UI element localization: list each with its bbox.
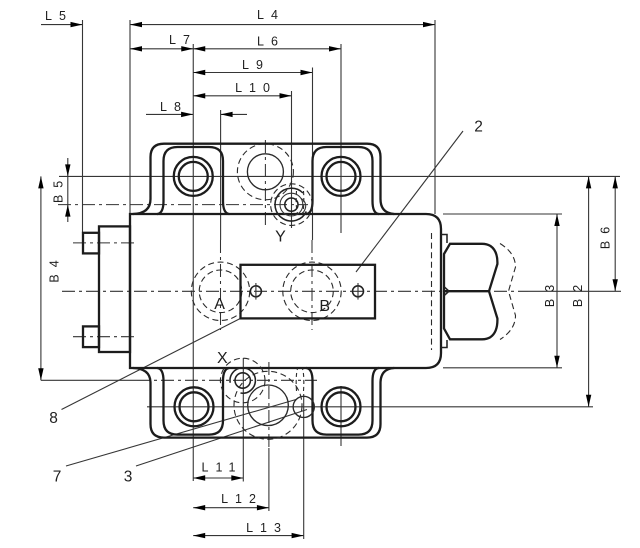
top-left bolt boss pocket xyxy=(158,147,230,214)
centerline port B vertical xyxy=(311,240,313,330)
nameplate xyxy=(241,265,376,319)
port X threaded hole xyxy=(220,358,265,403)
svg-text:B6: B6 xyxy=(599,220,613,249)
port B hidden circles xyxy=(283,262,341,320)
dimension L11 xyxy=(193,461,243,481)
centerline left tab upper xyxy=(73,242,137,244)
extension line x=341 (right bolt hole column) xyxy=(340,44,342,233)
bolt hole top-left outer xyxy=(174,157,213,196)
centerline top bore vertical xyxy=(264,140,266,229)
bolt hole top-right inner xyxy=(327,162,356,191)
svg-text:A: A xyxy=(214,296,225,313)
extension line x=243.3 (port X column) xyxy=(242,358,244,482)
centerline port X row xyxy=(137,379,317,381)
extension line y=291.3 right (B6 bottom) xyxy=(528,290,621,292)
svg-text:B2: B2 xyxy=(571,278,585,307)
svg-text:L10: L10 xyxy=(235,81,277,95)
bottom-left bolt boss pocket xyxy=(158,368,230,435)
dimension B6 xyxy=(599,176,618,291)
bottom bore hidden circle xyxy=(234,371,302,439)
svg-text:B4: B4 xyxy=(48,253,62,282)
top flange silhouette xyxy=(133,144,394,214)
svg-text:8: 8 xyxy=(49,410,58,427)
bolt hole top-left inner xyxy=(179,162,208,191)
callout 7 xyxy=(53,400,296,486)
valve body outline xyxy=(130,214,441,368)
dimension B2 xyxy=(571,176,591,406)
dimension B3 xyxy=(543,214,560,368)
svg-text:L13: L13 xyxy=(246,521,288,535)
port Y threaded hole xyxy=(271,184,313,226)
dimension L13 xyxy=(193,521,303,538)
dimension L6 xyxy=(193,35,341,52)
callout 8 xyxy=(49,318,240,427)
hex plug hidden end arc xyxy=(500,244,516,340)
drain hole bottom xyxy=(293,396,314,417)
extension line y=214 right (B3 top) xyxy=(443,213,562,215)
svg-text:2: 2 xyxy=(474,119,483,136)
extension line y=367.8 right (B3 bottom) xyxy=(443,367,562,369)
dimension L7 xyxy=(130,33,197,51)
bolt hole top-right outer xyxy=(322,157,361,196)
extension line y=176.4 (bolt hole row) xyxy=(59,175,620,177)
nameplate screw left xyxy=(250,283,261,300)
centerline left tab lower xyxy=(73,336,137,338)
bottom-right bolt boss pocket xyxy=(307,368,379,435)
dimension L10 xyxy=(193,81,291,99)
port A hidden circles xyxy=(191,262,249,320)
nameplate screw right xyxy=(353,283,364,300)
left tab upper xyxy=(83,233,99,254)
svg-text:L12: L12 xyxy=(221,492,263,506)
svg-text:L11: L11 xyxy=(202,461,243,475)
svg-text:B3: B3 xyxy=(543,278,557,307)
callout 2 xyxy=(356,119,483,273)
centerline port Y row xyxy=(58,204,308,206)
dimension L12 xyxy=(193,492,269,510)
hidden web edge top pair xyxy=(296,191,297,214)
dimension L4 xyxy=(130,8,435,27)
svg-text:B5: B5 xyxy=(52,174,66,203)
hidden bore behind plug xyxy=(431,233,433,350)
extension line x=435 (body right) xyxy=(434,20,436,214)
dimension L9 xyxy=(193,58,312,75)
bolt hole bottom-left inner xyxy=(180,392,209,421)
svg-text:X: X xyxy=(217,350,228,367)
extension line x=312.5 (port B column) xyxy=(312,68,314,241)
callout 3 xyxy=(124,410,307,486)
bolt hole bottom-right outer xyxy=(322,387,361,426)
top bore inner circle xyxy=(247,154,283,190)
svg-text:3: 3 xyxy=(124,469,133,486)
svg-text:L7: L7 xyxy=(169,33,197,47)
centerline bottom-right bolt hole tail xyxy=(340,386,342,446)
svg-text:B: B xyxy=(319,298,330,315)
dimension B5 (outside arrows) xyxy=(52,158,71,222)
svg-text:Y: Y xyxy=(275,228,286,245)
top-right bolt boss pocket xyxy=(307,147,379,214)
hex plug left chamfer ticks xyxy=(445,287,449,295)
dimension B4 xyxy=(38,176,61,380)
dimension L5 xyxy=(41,9,83,28)
extension line x=291.5 (port Y column) xyxy=(291,91,293,228)
extension line y=406.8 (bottom hole row) xyxy=(147,406,593,408)
left tab lower xyxy=(83,326,99,347)
hidden web edge bottom pair xyxy=(296,369,297,392)
svg-text:L5: L5 xyxy=(45,9,73,23)
bolt hole bottom-left outer xyxy=(175,387,214,426)
svg-text:L9: L9 xyxy=(242,58,270,72)
svg-text:L6: L6 xyxy=(257,35,285,49)
centerline bottom bore vertical xyxy=(268,362,270,448)
hex plug outline xyxy=(444,244,497,339)
svg-text:L8: L8 xyxy=(160,100,188,114)
extension line x=193.25 (bolt hole column) xyxy=(192,44,194,481)
extension line x=303.7 (drain circle column) xyxy=(303,394,305,539)
extension line x=130 (body left edge) xyxy=(129,20,131,213)
left connector plate xyxy=(99,226,130,352)
main horizontal centerline xyxy=(62,290,528,292)
extension line x=268.9 (bottom bore column) xyxy=(268,448,270,511)
svg-text:L4: L4 xyxy=(257,8,285,22)
bottom bore inner circle xyxy=(248,385,289,426)
top bore hidden circle xyxy=(237,144,293,200)
extension line x=82.5 (tab face) xyxy=(82,20,84,233)
extension line y=380.3 (port X row) xyxy=(41,379,137,381)
extension line x=220.6 (port A column) xyxy=(220,110,222,240)
centerline port A vertical xyxy=(220,240,222,330)
hex plug neck top xyxy=(441,235,447,244)
svg-text:7: 7 xyxy=(53,469,62,486)
bottom flange silhouette xyxy=(133,368,394,438)
dimension L8 (outside arrows) xyxy=(146,100,247,117)
bolt hole bottom-right inner xyxy=(327,392,356,421)
hex plug neck bottom xyxy=(441,340,447,348)
hex plug mid edge xyxy=(444,290,489,292)
